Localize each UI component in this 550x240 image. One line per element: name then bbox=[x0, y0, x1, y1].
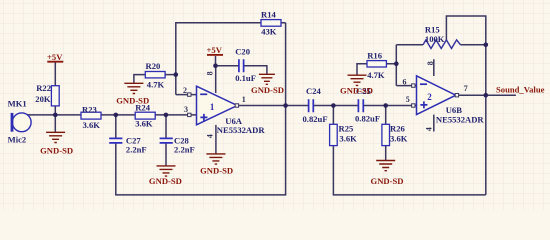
svg-text:0.1uF: 0.1uF bbox=[235, 73, 256, 83]
svg-text:NE5532ADR: NE5532ADR bbox=[436, 115, 485, 125]
svg-text:MK1: MK1 bbox=[8, 99, 27, 109]
svg-text:NE5532ADR: NE5532ADR bbox=[217, 125, 266, 135]
svg-text:Sound_Value: Sound_Value bbox=[496, 85, 545, 95]
svg-text:1: 1 bbox=[242, 95, 246, 104]
svg-text:2: 2 bbox=[183, 86, 187, 95]
svg-text:1: 1 bbox=[210, 102, 215, 112]
svg-text:5: 5 bbox=[406, 95, 410, 104]
svg-text:3.6K: 3.6K bbox=[135, 119, 153, 129]
svg-text:R26: R26 bbox=[390, 124, 406, 134]
svg-text:4: 4 bbox=[206, 134, 215, 138]
svg-text:GND-SD: GND-SD bbox=[149, 176, 182, 186]
svg-text:R20: R20 bbox=[146, 61, 161, 71]
svg-text:R16: R16 bbox=[367, 50, 383, 60]
svg-text:0.82uF: 0.82uF bbox=[355, 114, 380, 124]
svg-text:3.6K: 3.6K bbox=[83, 120, 101, 130]
svg-text:4.7K: 4.7K bbox=[147, 79, 165, 89]
svg-text:3.6K: 3.6K bbox=[390, 134, 408, 144]
svg-text:4.7K: 4.7K bbox=[367, 70, 385, 80]
svg-text:U6B: U6B bbox=[446, 105, 463, 115]
svg-text:+5V: +5V bbox=[207, 45, 223, 55]
svg-text:3: 3 bbox=[184, 105, 188, 114]
svg-text:43K: 43K bbox=[261, 27, 277, 37]
svg-text:R14: R14 bbox=[261, 10, 277, 20]
svg-text:GND-SD: GND-SD bbox=[340, 86, 373, 96]
svg-text:2.2nF: 2.2nF bbox=[174, 145, 195, 155]
svg-text:100K: 100K bbox=[425, 34, 445, 44]
svg-text:7: 7 bbox=[464, 84, 468, 93]
svg-text:R25: R25 bbox=[339, 124, 354, 134]
svg-text:20K: 20K bbox=[35, 94, 51, 104]
svg-text:R23: R23 bbox=[82, 104, 97, 114]
svg-text:8: 8 bbox=[206, 71, 215, 75]
svg-text:C24: C24 bbox=[306, 86, 322, 96]
svg-text:GND-SD: GND-SD bbox=[40, 145, 73, 155]
svg-text:0.82uF: 0.82uF bbox=[303, 114, 328, 124]
svg-text:R15: R15 bbox=[425, 25, 440, 35]
svg-text:GND-SD: GND-SD bbox=[116, 95, 149, 105]
svg-text:GND-SD: GND-SD bbox=[200, 166, 233, 176]
svg-text:2.2nF: 2.2nF bbox=[126, 144, 147, 154]
svg-text:GND-SD: GND-SD bbox=[371, 176, 404, 186]
svg-text:Mic2: Mic2 bbox=[8, 134, 27, 144]
svg-text:3.6K: 3.6K bbox=[339, 134, 357, 144]
svg-text:R22: R22 bbox=[36, 83, 51, 93]
svg-text:C20: C20 bbox=[235, 46, 250, 56]
svg-text:GND-SD: GND-SD bbox=[251, 85, 284, 95]
svg-text:8: 8 bbox=[426, 61, 435, 65]
svg-text:6: 6 bbox=[403, 77, 407, 86]
svg-text:2: 2 bbox=[427, 92, 432, 102]
svg-text:+5V: +5V bbox=[47, 52, 63, 62]
svg-text:4: 4 bbox=[425, 127, 434, 131]
